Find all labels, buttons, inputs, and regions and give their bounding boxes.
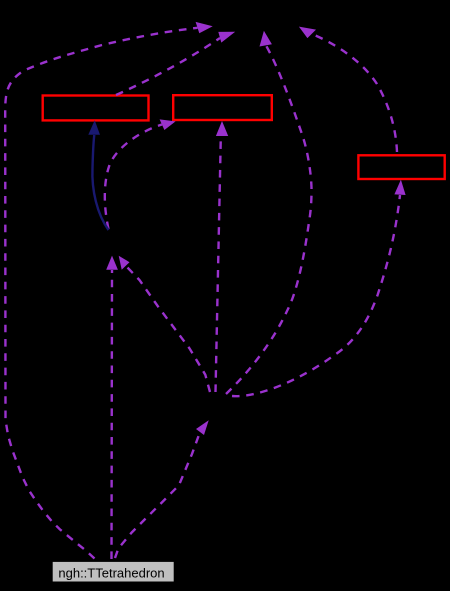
svg-text:ngh::TTetrahedron: ngh::TTetrahedron bbox=[58, 566, 164, 581]
